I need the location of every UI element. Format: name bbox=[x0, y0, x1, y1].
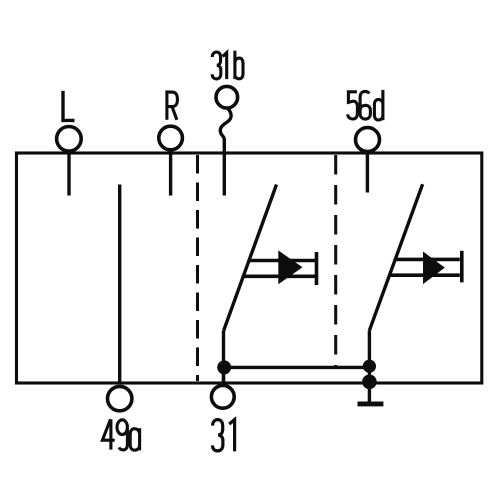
dashed linkage line 2 bbox=[334, 155, 337, 366]
switch S2 vertical wire to ground bbox=[368, 330, 371, 402]
wire stub under terminal R bbox=[169, 152, 172, 196]
label 31 bbox=[213, 420, 235, 452]
interconnect wire between switch nodes bbox=[224, 366, 370, 369]
switch S2 bar contact bbox=[460, 251, 464, 283]
node junction S1 bbox=[217, 360, 231, 374]
label R bbox=[167, 90, 178, 119]
wire stub under terminal 56d bbox=[366, 153, 369, 193]
squiggle wire from 31b bbox=[220, 108, 231, 196]
ground bar bbox=[358, 401, 384, 406]
terminal R circle bbox=[159, 126, 183, 150]
node junction S2 upper bbox=[363, 360, 376, 373]
terminal 49a circle bbox=[108, 386, 132, 410]
wire stub above terminal 31 bbox=[222, 367, 225, 385]
label 31b bbox=[212, 51, 243, 79]
switch S2 contact arm (diagonal) bbox=[369, 184, 422, 330]
label 56d bbox=[348, 90, 383, 120]
switch housing box bbox=[17, 153, 482, 383]
terminal 31 circle bbox=[211, 385, 234, 408]
terminal 56d circle bbox=[356, 128, 380, 152]
wire stub under terminal L bbox=[67, 153, 70, 196]
wire from 49a terminal (long vertical) bbox=[118, 185, 121, 384]
node junction S2 lower (on box edge) bbox=[362, 375, 377, 390]
switch S2 fork rails bbox=[389, 259, 460, 275]
label L bbox=[63, 91, 75, 121]
switch S1 arrowhead bbox=[278, 250, 302, 284]
switch S1 fork rails bbox=[242, 261, 317, 277]
switch S1 bar contact bbox=[315, 252, 319, 285]
switch S1 contact arm (diagonal) bbox=[224, 185, 277, 332]
terminal L circle bbox=[57, 127, 82, 152]
switch S1 vertical wire to node bbox=[222, 331, 225, 384]
terminal 31b circle bbox=[216, 86, 238, 108]
dashed linkage line 1 bbox=[196, 155, 199, 381]
switch S2 arrowhead bbox=[423, 252, 445, 285]
label 49a bbox=[102, 419, 139, 450]
